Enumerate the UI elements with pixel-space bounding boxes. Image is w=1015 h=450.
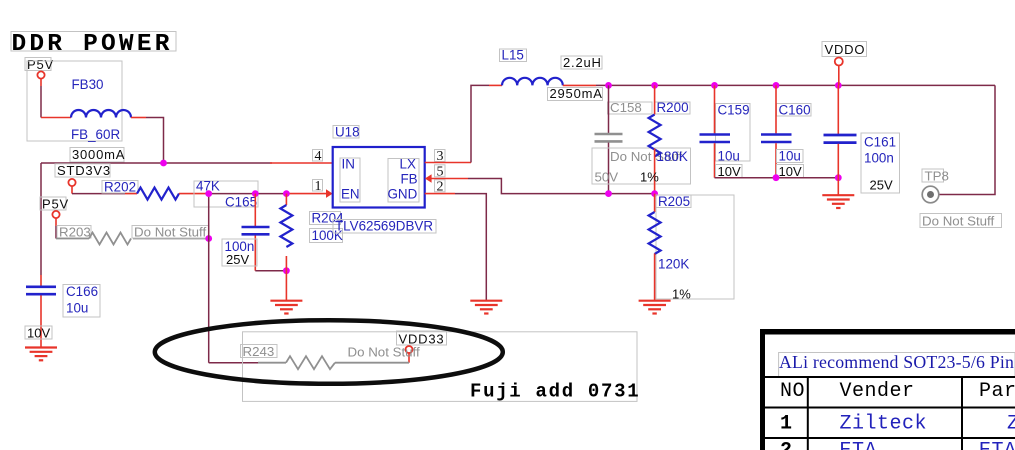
svg-text:P5V: P5V: [42, 197, 69, 212]
value 3000mA: [70, 147, 125, 162]
junction C158 bottom / FB: [605, 190, 612, 197]
svg-text:1%: 1%: [640, 170, 659, 185]
svg-text:2950mA: 2950mA: [550, 86, 603, 101]
svg-text:120K: 120K: [658, 257, 689, 272]
svg-text:10u: 10u: [66, 301, 88, 316]
wire P5V to FB30: [40, 86, 42, 118]
wire FB30 to bus: [146, 118, 164, 164]
wire top bus VDDO: [596, 84, 995, 86]
svg-text:TLV62569DBVR: TLV62569DBVR: [335, 219, 433, 234]
table title: [779, 353, 1015, 377]
ground below C161: [822, 195, 854, 208]
wire P5V2 stub: [55, 218, 57, 226]
wire U18 pin4 stub: [270, 162, 332, 164]
wire C161 to ground: [837, 178, 839, 195]
resistor R200 180K 1%: [640, 85, 690, 193]
ground below R204: [270, 301, 302, 314]
pin 5 label: [435, 164, 446, 179]
resistor R205 120K 1%: [649, 194, 734, 302]
power port STD3V3: [55, 163, 111, 186]
svg-text:10V: 10V: [718, 164, 741, 179]
ferrite bead FB30: [27, 61, 131, 142]
svg-text:ZT: ZT: [1007, 412, 1015, 435]
test point TP8: [920, 169, 1002, 229]
pin 1 label: [313, 179, 323, 194]
svg-text:L15: L15: [502, 48, 524, 63]
junction C165/R204 bottom: [283, 267, 290, 274]
pin 3 label: [435, 149, 446, 164]
svg-text:C166: C166: [66, 284, 98, 299]
junction C161 top: [835, 82, 842, 89]
wire U18 pin2 GND: [425, 193, 455, 195]
svg-text:STD3V3: STD3V3: [57, 163, 111, 178]
junction R200 bottom / R205 top: [651, 190, 658, 197]
svg-text:C160: C160: [779, 103, 811, 118]
wire FB30 left lead: [41, 117, 71, 119]
table (bottom right): [760, 329, 1015, 450]
power port P5V (top): [25, 57, 54, 79]
svg-text:10u: 10u: [779, 149, 801, 164]
ground below U18 GND: [470, 301, 502, 314]
svg-text:ETA: ETA: [979, 440, 1015, 450]
wire left vertical to C166: [40, 163, 42, 275]
svg-text:25V: 25V: [870, 178, 893, 193]
svg-text:ALi recommend SOT23-5/6 Pin: ALi recommend SOT23-5/6 Pin: [779, 352, 1014, 372]
junction C160 top: [773, 82, 780, 89]
svg-text:2.2uH: 2.2uH: [563, 55, 602, 70]
svg-text:TP8: TP8: [925, 169, 949, 184]
wire U18 pin1 stub: [286, 193, 326, 195]
capacitor C161 100n 25V: [824, 85, 900, 193]
svg-text:2: 2: [437, 179, 444, 194]
wire EN node verticals: [208, 194, 210, 363]
box around R243 note area: [243, 332, 638, 402]
svg-text:100n: 100n: [864, 151, 894, 166]
svg-text:C165: C165: [225, 195, 257, 210]
wire U18 pin3 to L15: [425, 162, 471, 164]
wire C165 bottom to R204 bottom: [255, 270, 286, 272]
wire bottom bus C159-C161: [715, 177, 839, 179]
inductor L15 2.2uH: [489, 48, 603, 102]
junction bus/FB30: [160, 160, 167, 167]
wire EN row between junctions: [209, 193, 287, 195]
resistor R204 100K: [280, 194, 344, 271]
power port P5V (lower): [40, 197, 69, 219]
svg-text:R205: R205: [658, 194, 690, 209]
ground below R205: [639, 301, 671, 314]
wire P5V stub: [40, 79, 42, 86]
svg-text:EN: EN: [341, 187, 360, 202]
capacitor C158 Do Not Stuff 50V: [592, 85, 691, 193]
wire FB30 right lead: [131, 117, 146, 119]
svg-text:Zilteck: Zilteck: [840, 412, 928, 435]
capacitor C165 100n 25V: [222, 194, 270, 271]
wire R204 to ground: [285, 271, 287, 300]
op-amp U18 TLV62569DBVR: [333, 125, 436, 234]
svg-text:10V: 10V: [779, 164, 802, 179]
highlight ellipse: [155, 320, 503, 384]
resistor R202 47K: [102, 179, 258, 208]
svg-text:C158: C158: [610, 100, 642, 115]
svg-text:Do Not Stuff: Do Not Stuff: [348, 345, 420, 360]
wire U18 pin5 FB: [431, 178, 468, 180]
svg-text:Fuji add 0731: Fuji add 0731: [470, 381, 640, 403]
svg-text:GND: GND: [388, 187, 418, 202]
svg-text:10V: 10V: [27, 326, 50, 341]
svg-text:IN: IN: [342, 157, 355, 172]
svg-text:4: 4: [315, 149, 322, 164]
junction R203/EN net: [205, 235, 212, 242]
wire STD3V3 bus: [41, 162, 272, 164]
wire STD3V3 to R202: [72, 193, 125, 195]
svg-text:180K: 180K: [657, 149, 688, 164]
svg-text:1%: 1%: [672, 287, 691, 302]
table grid lines: [765, 376, 1015, 378]
svg-text:C159: C159: [718, 103, 750, 118]
wire STD3V3 stub: [71, 186, 73, 193]
capacitor C159 10u 10V: [700, 85, 751, 179]
svg-text:Do Not Stuff: Do Not Stuff: [134, 225, 206, 240]
junction R200 top: [651, 82, 658, 89]
junction R204/EN: [283, 190, 290, 197]
svg-text:FB_60R: FB_60R: [71, 127, 120, 142]
junction C161 bottom: [835, 174, 842, 181]
table thick top border: [760, 329, 1015, 335]
svg-text:R202: R202: [104, 180, 136, 195]
svg-text:1: 1: [315, 179, 322, 194]
svg-text:10u: 10u: [718, 149, 740, 164]
svg-text:Do Not Stuff: Do Not Stuff: [922, 214, 994, 229]
resistor R243 Do Not Stuff: [241, 344, 420, 369]
junction C160 bottom: [773, 174, 780, 181]
svg-text:R200: R200: [657, 100, 689, 115]
svg-text:50V: 50V: [595, 170, 619, 185]
svg-text:P5V: P5V: [27, 57, 54, 72]
svg-text:FB30: FB30: [72, 77, 104, 92]
svg-text:FB: FB: [401, 172, 418, 187]
svg-text:LX: LX: [400, 157, 416, 172]
table thick left border: [760, 329, 765, 450]
svg-text:NO: NO: [780, 380, 805, 403]
svg-text:ETA: ETA: [840, 440, 878, 450]
svg-text:1: 1: [780, 412, 792, 435]
svg-text:5: 5: [437, 164, 444, 179]
pin 2 label: [435, 179, 446, 194]
svg-text:2: 2: [780, 440, 792, 450]
svg-text:R243: R243: [243, 344, 275, 359]
svg-text:R203: R203: [59, 225, 91, 240]
title DDR POWER: [11, 31, 176, 58]
capacitor C166 10u 10V: [25, 275, 100, 347]
capacitor C160 10u 10V: [761, 85, 811, 179]
junction C159 top: [711, 82, 718, 89]
wire right edge down: [939, 85, 995, 194]
svg-text:Vender: Vender: [840, 380, 915, 403]
junction C165/EN: [252, 190, 259, 197]
svg-text:DDR POWER: DDR POWER: [12, 31, 173, 58]
junction R202/EN: [205, 190, 212, 197]
svg-text:Part: Part: [979, 380, 1015, 403]
svg-text:3000mA: 3000mA: [72, 147, 125, 162]
power port VDDO: [822, 42, 867, 86]
ground below C166: [25, 348, 57, 361]
svg-text:VDDO: VDDO: [825, 42, 866, 57]
junction C158 top: [605, 82, 612, 89]
svg-text:U18: U18: [335, 125, 360, 140]
resistor R203 Do Not Stuff: [56, 225, 209, 245]
svg-text:25V: 25V: [226, 252, 249, 267]
pin 4 label: [313, 149, 323, 164]
svg-text:C161: C161: [864, 135, 896, 150]
net label VDD33: [397, 331, 447, 363]
